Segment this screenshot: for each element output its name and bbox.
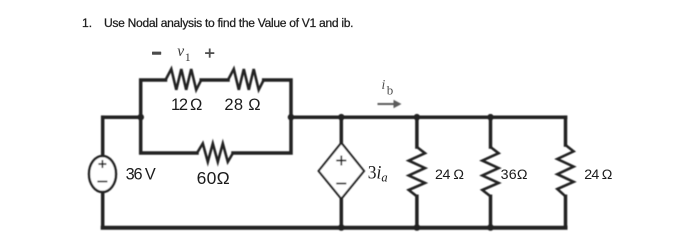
svg-text:Use Nodal analysis to find the: Use Nodal analysis to find the Value of …: [104, 16, 354, 30]
svg-text:1.: 1.: [82, 16, 92, 30]
svg-text:3i: 3i: [368, 163, 382, 184]
svg-text:a: a: [381, 171, 387, 185]
svg-text:b: b: [387, 83, 394, 98]
svg-text:36Ω: 36Ω: [501, 167, 528, 183]
svg-text:28 Ω: 28 Ω: [224, 96, 260, 114]
svg-text:60Ω: 60Ω: [197, 168, 230, 188]
svg-text:v: v: [177, 43, 184, 60]
svg-text:12 Ω: 12 Ω: [171, 96, 202, 114]
svg-text:24 Ω: 24 Ω: [435, 167, 464, 183]
svg-text:24 Ω: 24 Ω: [584, 167, 612, 183]
svg-text:i: i: [382, 77, 386, 92]
svg-text:36 V: 36 V: [126, 166, 156, 184]
svg-text:1: 1: [185, 50, 191, 64]
